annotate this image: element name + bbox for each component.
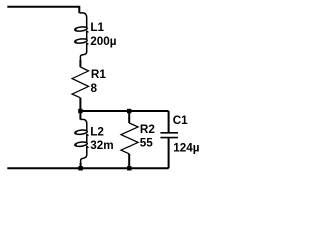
svg-text:32m: 32m xyxy=(90,139,113,152)
svg-text:R1: R1 xyxy=(91,68,106,81)
bottom junction dot left xyxy=(78,166,82,170)
wire L1 to R1 xyxy=(79,60,81,67)
svg-text:124µ: 124µ xyxy=(173,141,200,154)
wire C1 to bottom rail xyxy=(168,138,170,168)
inductor L1 xyxy=(74,13,88,61)
wire top rail xyxy=(7,7,79,13)
svg-text:L2: L2 xyxy=(90,125,104,138)
wire middle rail to C1 xyxy=(168,111,170,132)
wire node to L2 xyxy=(79,111,81,120)
inductor L2 xyxy=(74,119,88,164)
svg-text:8: 8 xyxy=(91,82,98,95)
svg-text:R2: R2 xyxy=(140,123,155,136)
wire R2 to bottom rail xyxy=(128,154,130,169)
svg-text:200µ: 200µ xyxy=(90,35,117,48)
wire R1 to middle node xyxy=(79,98,81,111)
wire L2 to bottom rail xyxy=(80,163,82,168)
wire node to R2 xyxy=(128,111,130,123)
svg-text:L1: L1 xyxy=(90,21,104,34)
capacitor C1 bottom plate xyxy=(160,137,178,139)
svg-text:55: 55 xyxy=(140,136,154,149)
resistor R1 xyxy=(72,67,89,98)
bottom junction dot middle xyxy=(127,166,131,170)
node junction dot middle xyxy=(127,109,131,113)
wire middle rail xyxy=(80,110,168,112)
wire bottom rail xyxy=(7,167,168,169)
node junction dot left xyxy=(78,109,82,113)
capacitor C1 top plate xyxy=(160,132,178,134)
resistor R2 xyxy=(121,123,138,154)
svg-text:C1: C1 xyxy=(173,114,188,127)
